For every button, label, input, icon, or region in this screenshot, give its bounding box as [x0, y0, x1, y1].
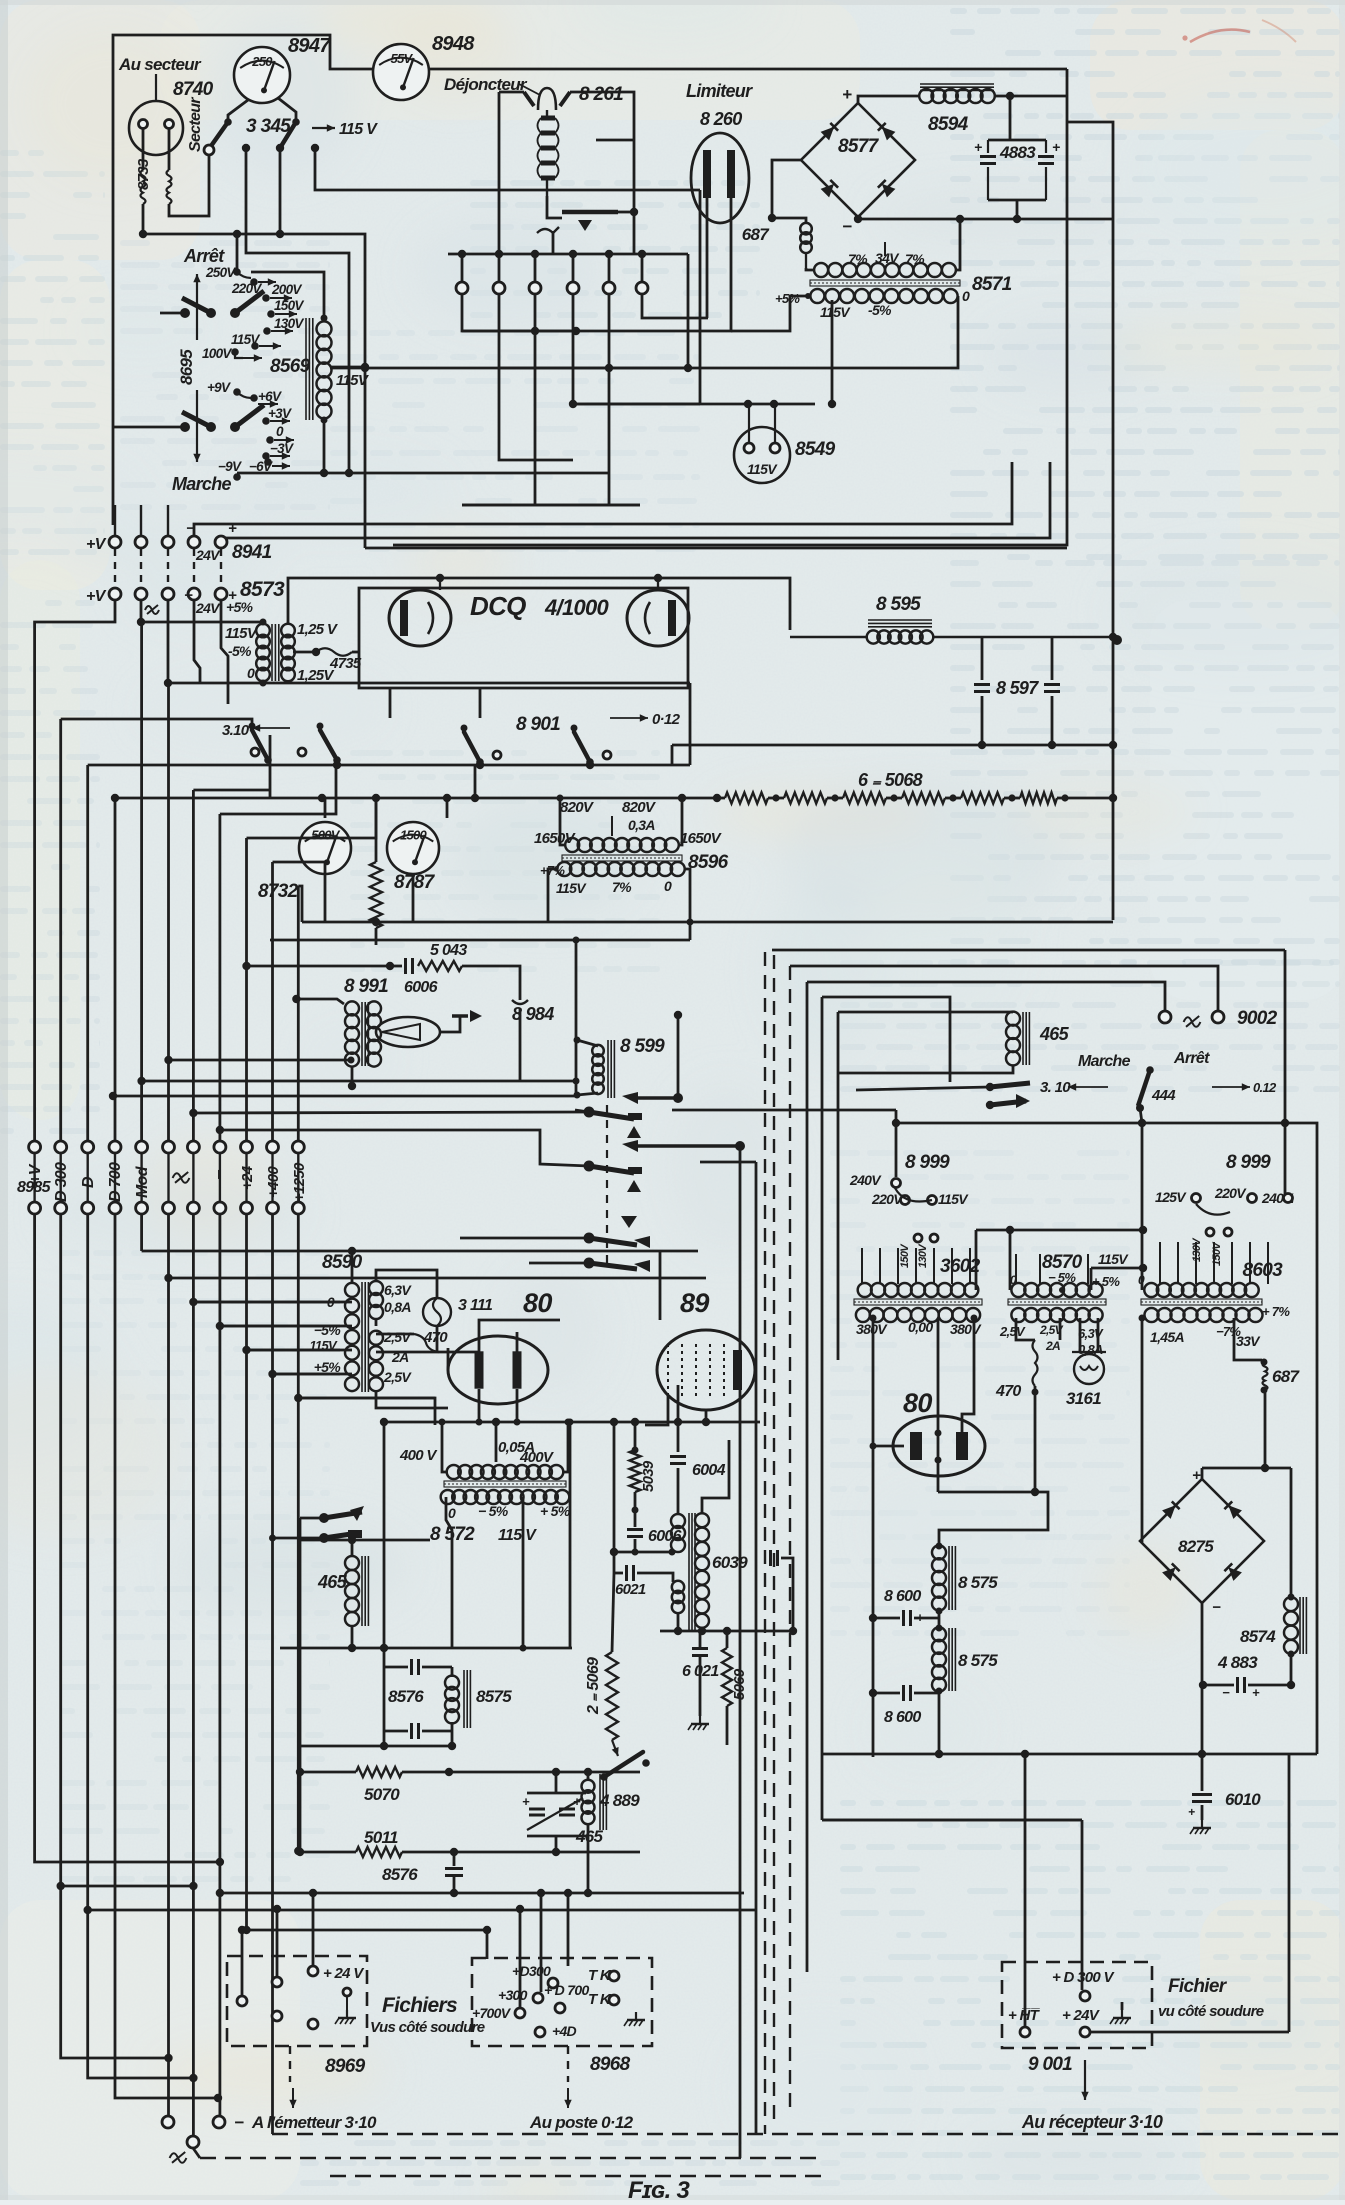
wire 8569 bottom lead — [323, 420, 326, 473]
svg-text:0: 0 — [448, 1505, 456, 1521]
svg-text:8275: 8275 — [1178, 1537, 1214, 1556]
wire 115V tap down — [831, 300, 834, 404]
svg-text:115V: 115V — [747, 461, 778, 477]
wire right exits down — [1024, 1754, 1027, 2016]
switch selector upper — [206, 308, 216, 318]
wire right section inner loops — [790, 966, 1218, 1011]
wire top-left border — [113, 35, 372, 525]
capacitor 8600 lower — [902, 1685, 905, 1701]
wire 1.45A to bridge left — [1140, 1318, 1142, 1541]
svg-text:+ 24 V: + 24 V — [323, 1965, 365, 1982]
svg-text:8 984: 8 984 — [512, 1004, 554, 1024]
coil 8575 upper right — [932, 1545, 946, 1559]
svg-text:3.10: 3.10 — [222, 722, 250, 739]
svg-text:80: 80 — [523, 1288, 552, 1318]
wire bus y765 to 8596 — [689, 683, 692, 765]
wire meters bottoms — [324, 874, 327, 922]
wire 8596 secondary down — [548, 869, 558, 922]
svg-text:8575: 8575 — [476, 1687, 512, 1706]
wire bottom dashed rails — [272, 2133, 1345, 2136]
svg-text:+: + — [974, 139, 982, 155]
switch 8901 row — [464, 732, 480, 762]
relay contact blade 1 — [584, 1107, 595, 1118]
svg-text:8603: 8603 — [1243, 1260, 1284, 1281]
wire rows to relay blades — [460, 1237, 589, 1240]
switch selector lower — [206, 422, 216, 432]
wire bus y1552 — [614, 1551, 672, 1554]
wire switch bus verticals from DCQ — [389, 688, 392, 718]
wire row y404 to plug 8549 — [573, 403, 815, 406]
svg-text:8968: 8968 — [590, 2054, 631, 2075]
svg-text:6006: 6006 — [648, 1528, 682, 1545]
svg-text:8 575: 8 575 — [958, 1573, 998, 1592]
wire tube 80 leads — [479, 1320, 560, 1352]
svg-text:5070: 5070 — [364, 1785, 400, 1804]
terminals 9002 — [1159, 1011, 1171, 1023]
wire 6.3V return — [375, 1318, 378, 1326]
svg-text:8 600: 8 600 — [884, 1588, 921, 1605]
svg-text:8574: 8574 — [1240, 1627, 1276, 1646]
svg-text:+: + — [1252, 1685, 1260, 1700]
svg-text:7%: 7% — [848, 251, 868, 267]
svg-text:+: + — [573, 1794, 581, 1809]
svg-text:+1250: +1250 — [291, 1162, 308, 1202]
svg-text:687: 687 — [742, 225, 771, 244]
svg-text:Marche: Marche — [1078, 1053, 1131, 1070]
wire 8571 primary right up — [956, 219, 960, 270]
wire fichiers 8968 feeds — [486, 1930, 489, 1959]
wire 8590 taps left — [351, 1251, 354, 1282]
svg-text:125V: 125V — [1155, 1189, 1187, 1205]
wire 9001 nets — [1024, 2016, 1027, 2026]
wire right rail x1113 joints — [1109, 633, 1117, 641]
svg-text:8576: 8576 — [388, 1687, 424, 1706]
wire 6039 leads — [677, 1480, 680, 1515]
wire +V row2 to left rail — [35, 600, 115, 1141]
svg-text:220V: 220V — [1214, 1185, 1247, 1201]
svg-text:820V: 820V — [560, 799, 595, 816]
wire taps to 3602 — [861, 1248, 863, 1284]
terminal row1 y1147 — [29, 1141, 41, 1153]
svg-text:0: 0 — [962, 288, 970, 304]
transformer 6039 — [671, 1514, 685, 1528]
wire bus y538 — [221, 462, 1050, 548]
svg-text:8695: 8695 — [177, 349, 196, 385]
transformer 8569 winding — [305, 318, 307, 420]
breaker 8261 contact — [547, 196, 562, 218]
terminal row under breaker — [458, 250, 466, 258]
svg-text:8577: 8577 — [838, 136, 880, 157]
wire selector bottom bus — [237, 472, 609, 475]
tube DCQ left — [389, 590, 451, 646]
svg-text:−: − — [842, 217, 852, 236]
wire 8572 primary ends — [442, 1422, 448, 1472]
breaker 8261 bulb — [538, 88, 556, 110]
wire terminal row drops — [462, 294, 576, 331]
svg-text:Arrêt: Arrêt — [183, 246, 225, 266]
wire y234 horizontal to selector — [143, 234, 365, 548]
transformer 8573 secondary — [281, 624, 295, 638]
svg-text:+3V: +3V — [268, 406, 292, 421]
svg-text:+: + — [1192, 1467, 1201, 1484]
wire row2 verticals down — [35, 1214, 220, 1862]
svg-text:Fichiers: Fichiers — [382, 1994, 457, 2017]
svg-text:8947: 8947 — [288, 35, 331, 57]
svg-text:Au récepteur 3·10: Au récepteur 3·10 — [1021, 2112, 1163, 2132]
capacitor 6010 — [1201, 1754, 1204, 1791]
svg-text:+ 5%: + 5% — [1092, 1274, 1120, 1289]
transformer 8596 secondary — [557, 862, 571, 876]
svg-text:Arrêt: Arrêt — [1173, 1050, 1210, 1067]
svg-text:8 999: 8 999 — [1226, 1152, 1271, 1173]
plug 8740 — [129, 101, 183, 155]
wire 8569 115V tap — [330, 366, 365, 369]
wire box bottom y548 — [365, 547, 1067, 550]
wire mod row to 8572 — [298, 1398, 435, 1425]
svg-text:−: − — [184, 587, 193, 604]
svg-text:80: 80 — [903, 1388, 932, 1418]
svg-text:6021: 6021 — [615, 1581, 646, 1598]
wire tube 89 leads — [659, 1251, 662, 1320]
relay fixed contact lower — [622, 1140, 638, 1152]
svg-text:1650V: 1650V — [680, 830, 723, 847]
svg-text:820V: 820V — [622, 799, 657, 816]
svg-text:−: − — [186, 520, 195, 537]
fuse 8733 pair — [142, 128, 145, 170]
wire 8599 riser — [575, 940, 578, 1095]
svg-text:+: + — [1188, 1805, 1195, 1819]
svg-text:2A: 2A — [1045, 1339, 1060, 1353]
wire bridge top bus — [1202, 1467, 1291, 1470]
svg-text:6010: 6010 — [1225, 1790, 1261, 1809]
svg-text:+: + — [842, 85, 852, 104]
svg-text:+: + — [228, 520, 237, 537]
coil 465 right — [1006, 1012, 1020, 1026]
lamp 3111 — [376, 1270, 437, 1298]
breaker 8261 coil — [546, 110, 548, 118]
wire secondary bottom bus — [168, 682, 288, 685]
arrow au recepteur — [1084, 2060, 1086, 2100]
svg-text:8596: 8596 — [688, 852, 729, 873]
transformer 8571 primary — [814, 263, 828, 277]
svg-text:− 5%: − 5% — [478, 1503, 509, 1519]
svg-text:vu côté soudure: vu côté soudure — [1158, 2003, 1264, 2020]
capacitor 6021 upper — [614, 1572, 623, 1575]
svg-text:+300: +300 — [498, 1987, 528, 2003]
wire meters top bus — [115, 797, 717, 800]
relay fixed up arrow 1 — [627, 1126, 641, 1138]
capacitor 6006 right — [634, 1492, 637, 1527]
svg-text:4 883: 4 883 — [1217, 1653, 1258, 1672]
wire right riser to top box — [699, 190, 702, 404]
svg-text:3 345: 3 345 — [246, 116, 291, 137]
svg-text:Vus côté soudure: Vus côté soudure — [370, 2019, 485, 2036]
capacitor 4883 pair — [1009, 96, 1012, 140]
svg-text:400V: 400V — [519, 1449, 555, 1466]
terminal row 8573 — [109, 588, 121, 600]
wire 115V bus across — [976, 1229, 1143, 1232]
fichiers box 8968 dashed — [472, 1958, 652, 2046]
capacitor 8576 bottom — [410, 1723, 413, 1739]
svg-text:+ 7%: + 7% — [1262, 1304, 1290, 1319]
bridge 8577 — [801, 103, 915, 217]
svg-text:Limiteur: Limiteur — [686, 81, 753, 101]
resistor 2=5069 vertical — [606, 1652, 618, 1740]
wire limiteur legs — [706, 198, 709, 318]
wire lower left buses — [299, 1518, 302, 1852]
capacitor 8576 top — [383, 1422, 386, 1667]
tube 80 left — [448, 1336, 548, 1404]
wire filament center tap — [937, 1318, 940, 1492]
svg-text:+ 24V: + 24V — [1062, 2007, 1101, 2024]
tube DCQ right — [627, 590, 689, 646]
wire secteur row contacts — [242, 144, 250, 152]
wire bridge bottom bus — [857, 217, 859, 219]
svg-text:+5%: +5% — [226, 599, 254, 615]
wire tube 80 right plate leads — [873, 1445, 904, 1448]
capacitor 8597 left — [981, 637, 984, 680]
svg-text:0,3A: 0,3A — [628, 817, 655, 833]
switch arrow 5069 — [612, 1740, 618, 1756]
wire 8569 top lead — [251, 272, 324, 318]
svg-text:+700V: +700V — [472, 2005, 512, 2021]
svg-text:+V: +V — [86, 536, 107, 553]
svg-text:7%: 7% — [612, 879, 632, 895]
svg-text:465: 465 — [317, 1572, 348, 1592]
svg-text:-5%: -5% — [228, 643, 252, 659]
transformer 8571 core — [810, 280, 960, 286]
wire 3345 verticals down — [246, 148, 349, 473]
wire 33V tap to 687 — [1234, 1318, 1262, 1360]
svg-text:A l'émetteur 3·10: A l'émetteur 3·10 — [251, 2113, 377, 2132]
lamp 3161 — [1079, 1318, 1082, 1352]
svg-text:6004: 6004 — [692, 1462, 726, 1479]
capacitor 6021 lower — [692, 1647, 708, 1650]
svg-text:8733: 8733 — [135, 158, 152, 190]
relay contact blade 2 — [584, 1161, 595, 1172]
svg-text:4/1000: 4/1000 — [544, 595, 610, 620]
relay fixed contact upper — [622, 1092, 638, 1104]
svg-text:5039: 5039 — [640, 1460, 657, 1492]
relay fixed up arrow 2 — [627, 1180, 641, 1192]
svg-text:8 595: 8 595 — [876, 594, 921, 615]
svg-text:5 043: 5 043 — [430, 942, 467, 959]
svg-text:−5%: −5% — [314, 1322, 342, 1338]
wire DCQ tube tops — [657, 578, 659, 590]
relay contact blade 4 — [584, 1258, 595, 1269]
svg-text:-5%: -5% — [868, 302, 892, 318]
svg-text:3161: 3161 — [1066, 1389, 1101, 1408]
wire 8571 secondary taps — [731, 296, 808, 331]
wire relay bus y1123 — [896, 1122, 1285, 1125]
svg-text:9 001: 9 001 — [1028, 2054, 1072, 2075]
svg-text:8 261: 8 261 — [579, 84, 623, 105]
rectifier 8984 — [376, 1017, 440, 1047]
wire dashes between terminal rows — [114, 549, 116, 587]
svg-text:8732: 8732 — [258, 881, 299, 902]
svg-text:0: 0 — [664, 878, 672, 894]
wire fichiers 8969 feeds — [241, 1930, 244, 1995]
svg-text:Au secteur: Au secteur — [118, 55, 202, 74]
wire 8571 primary left to 687 — [806, 268, 814, 270]
svg-text:4883: 4883 — [999, 143, 1036, 162]
svg-text:2 ₌ 5069: 2 ₌ 5069 — [585, 1657, 602, 1715]
resistor 5011 — [356, 1847, 402, 1857]
svg-text:34V: 34V — [875, 250, 900, 266]
wire bus y524 — [194, 462, 1012, 548]
wire bridge left to coil 687 — [772, 160, 801, 218]
svg-text:130V: 130V — [917, 1243, 929, 1268]
wire bus y1754 right — [822, 1753, 1317, 1756]
wire top bus from meter 8948 to right box corner — [430, 68, 1067, 71]
relay contact pair left — [319, 1513, 329, 1523]
wire fan horizontals mid-left — [193, 789, 270, 792]
svg-text:6006: 6006 — [404, 979, 438, 996]
svg-text:8 260: 8 260 — [700, 109, 742, 129]
wire right section border top — [772, 949, 1285, 952]
fichier box 9001 dashed — [1002, 1962, 1152, 2048]
resistor 5039 — [634, 1422, 637, 1450]
svg-text:8549: 8549 — [795, 439, 836, 460]
wire y622 to transformer 8573 — [141, 621, 263, 624]
wire mod bus continuations — [575, 1110, 589, 1112]
svg-text:250V: 250V — [205, 265, 236, 280]
coil 465 second — [582, 1780, 595, 1793]
svg-text:2,5V: 2,5V — [383, 1329, 412, 1345]
svg-text:130V: 130V — [274, 316, 304, 331]
svg-text:6,3V: 6,3V — [384, 1282, 412, 1298]
terminal row 8941 — [114, 505, 116, 536]
wire left feeds into right section — [822, 1819, 1082, 1822]
coil 8575 left — [445, 1676, 459, 1690]
wire bus y1540 and y1648 — [140, 1250, 143, 1253]
svg-text:−: − — [234, 2113, 244, 2132]
svg-text:8 599: 8 599 — [620, 1036, 665, 1057]
svg-text:8576: 8576 — [382, 1865, 418, 1884]
relay contacts right — [986, 1083, 994, 1091]
wire bus y1746 — [299, 1745, 454, 1748]
switch 3345 pole 1 — [211, 122, 228, 146]
wire lower fan horizontals — [142, 1250, 698, 1253]
svg-text:4 889: 4 889 — [599, 1791, 640, 1810]
svg-text:Fɪɢ. 3: Fɪɢ. 3 — [628, 2177, 691, 2200]
fichiers 8969 terminals — [237, 1996, 247, 2006]
svg-text:+ D 300 V: + D 300 V — [1052, 1969, 1116, 1986]
svg-text:200V: 200V — [271, 282, 302, 297]
svg-text:55V: 55V — [390, 51, 413, 66]
svg-text:8 999: 8 999 — [905, 1152, 950, 1173]
svg-text:8740: 8740 — [173, 79, 214, 100]
wire solid risers to bottom rail — [739, 1146, 742, 2158]
svg-text:+ 5%: + 5% — [540, 1503, 571, 1519]
svg-text:+D300: +D300 — [512, 1963, 551, 1979]
wire dashed harness verticals — [764, 952, 766, 2134]
svg-text:465: 465 — [1039, 1024, 1070, 1044]
svg-text:115V: 115V — [556, 880, 587, 896]
svg-text:8573: 8573 — [240, 578, 285, 601]
svg-text:115V: 115V — [820, 304, 851, 320]
wire meter 8947 leads — [228, 100, 248, 122]
transformer 8590 secondary 2.5V — [369, 1331, 383, 1345]
svg-text:115V: 115V — [225, 625, 259, 642]
wire sine row2 down — [140, 600, 143, 622]
svg-text:+: + — [522, 1794, 530, 1809]
svg-text:8787: 8787 — [394, 872, 436, 893]
svg-text:1500: 1500 — [400, 828, 428, 843]
svg-text:240V: 240V — [849, 1172, 882, 1188]
svg-text:1,25 V: 1,25 V — [297, 621, 339, 638]
svg-text:115 V: 115 V — [498, 1527, 537, 1544]
red pencil marks top right — [1190, 30, 1250, 42]
capacitor 8597 right — [1051, 637, 1054, 680]
svg-text:115V: 115V — [938, 1191, 969, 1207]
svg-text:3 111: 3 111 — [458, 1297, 493, 1314]
wire bus rows above fichiers — [220, 1892, 744, 1895]
meter 8948 — [373, 44, 429, 100]
svg-text:8941: 8941 — [232, 542, 272, 563]
svg-text:8590: 8590 — [322, 1252, 363, 1273]
svg-text:500V: 500V — [311, 828, 341, 843]
wire bus y795 left — [269, 735, 272, 798]
svg-text:115 V: 115 V — [339, 121, 378, 138]
svg-text:444: 444 — [1151, 1087, 1176, 1104]
wire y798 jog to switch bus — [678, 794, 686, 802]
wire 115V arrow — [312, 127, 335, 129]
svg-text:+4D: +4D — [552, 2023, 577, 2039]
relay fixed down arrow 3 — [621, 1216, 637, 1228]
svg-text:0,8A: 0,8A — [384, 1299, 411, 1315]
svg-text:+7%: +7% — [540, 863, 565, 878]
wire taps drop x168 x194 x221 — [167, 600, 170, 683]
wire relay link dashed — [606, 1105, 608, 1270]
svg-text:+9V: +9V — [207, 380, 231, 395]
wire bridge bottom down — [1201, 1603, 1204, 1754]
fichiers box 8969 dashed — [227, 1956, 367, 2046]
svg-text:Au poste 0·12: Au poste 0·12 — [529, 2113, 634, 2132]
wire breaker right loop — [570, 92, 634, 254]
wire breaker left loop — [498, 92, 501, 254]
bridge 8275 — [1140, 1479, 1264, 1603]
ground 6021 — [699, 1716, 701, 1724]
svg-text:115V: 115V — [336, 372, 370, 389]
svg-text:24V: 24V — [195, 547, 221, 563]
wire switch bottoms bus — [268, 764, 690, 767]
wire secondary top to DCQ — [288, 578, 440, 625]
wire 89 anode net — [385, 1421, 760, 1424]
capacitor 6004 — [677, 1385, 680, 1452]
svg-text:3. 10: 3. 10 — [1040, 1079, 1071, 1096]
svg-text:100V: 100V — [202, 346, 232, 361]
svg-text:9002: 9002 — [1237, 1008, 1278, 1029]
coil 8594 — [920, 83, 994, 85]
wire bottom terminals — [162, 2116, 174, 2128]
wire bus y1631 — [660, 1630, 793, 1633]
svg-text:Secteur: Secteur — [187, 97, 204, 152]
fuse 4735 — [293, 651, 316, 654]
svg-text:89: 89 — [680, 1288, 709, 1318]
svg-text:+ D 700: + D 700 — [544, 1982, 589, 1998]
svg-text:8 575: 8 575 — [958, 1651, 998, 1670]
wire row y368 — [330, 367, 688, 370]
svg-text:Fichier: Fichier — [1168, 1976, 1228, 1997]
wire 8984 net — [462, 966, 520, 1000]
svg-text:+: + — [1052, 139, 1060, 155]
svg-text:687: 687 — [1272, 1367, 1301, 1386]
svg-text:380V: 380V — [950, 1321, 982, 1337]
wire 8572 secondary ends — [446, 1497, 452, 1648]
svg-text:2,5V: 2,5V — [999, 1324, 1026, 1339]
svg-text:0: 0 — [276, 424, 284, 439]
